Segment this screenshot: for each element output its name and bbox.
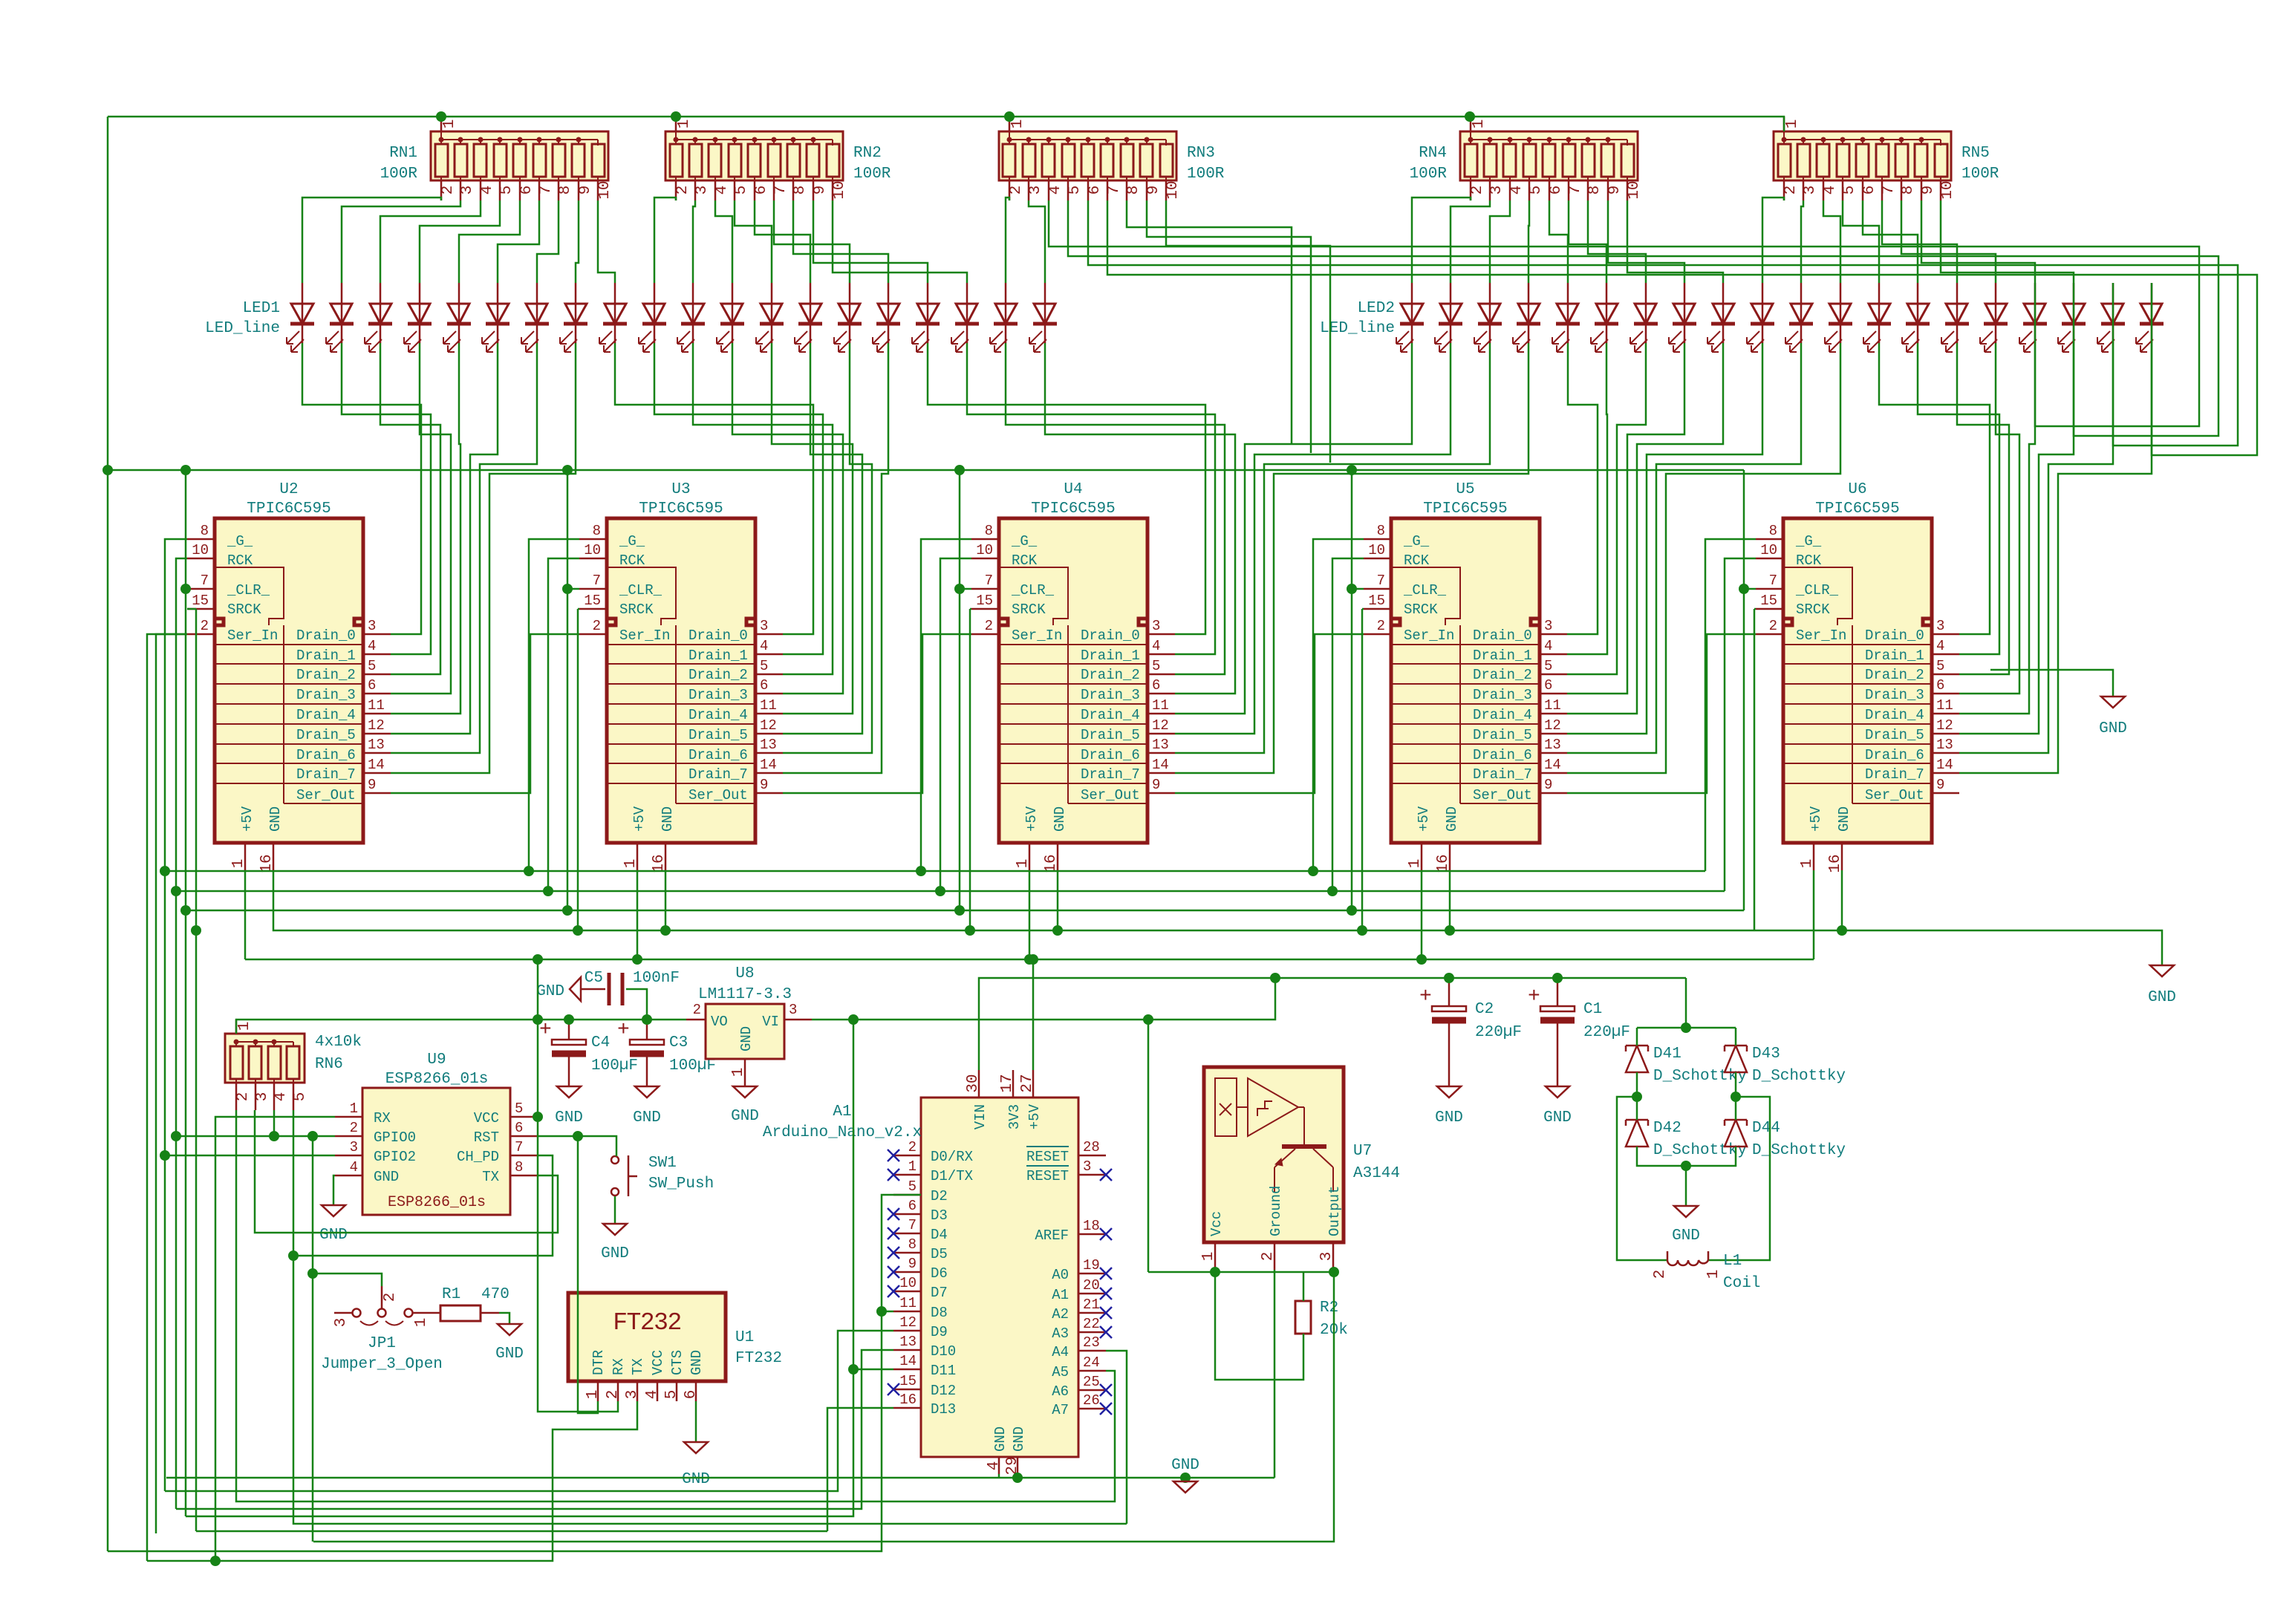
svg-text:LED1: LED1: [243, 300, 280, 317]
svg-text:SW_Push: SW_Push: [648, 1175, 714, 1193]
svg-text:+5V: +5V: [1026, 1103, 1043, 1129]
svg-text:15: 15: [976, 593, 993, 609]
svg-text:6: 6: [1152, 677, 1160, 694]
junction: [1329, 1267, 1339, 1277]
wire D13 left: [196, 1530, 827, 1533]
wire CLR vertical: [959, 470, 961, 910]
svg-text:GND: GND: [1543, 1109, 1572, 1126]
ground left of C5: [570, 977, 581, 1001]
svg-text:10: 10: [976, 542, 993, 558]
svg-text:R2: R2: [1320, 1299, 1338, 1317]
wire CLR bus: [186, 910, 1744, 912]
IC U7 A3144 hall sensor: [1200, 1067, 1400, 1270]
LED LED1 element 18: [951, 283, 979, 352]
svg-text:Drain_6: Drain_6: [296, 747, 356, 763]
wire LED cathode to drain: [1567, 343, 1723, 714]
junction: [191, 925, 201, 936]
wire pin29 drop: [1017, 1474, 1019, 1478]
svg-text:_CLR_: _CLR_: [1795, 582, 1839, 599]
svg-text:TPIC6C595: TPIC6C595: [1031, 500, 1115, 518]
svg-text:SRCK: SRCK: [227, 601, 261, 618]
svg-text:11: 11: [1152, 697, 1169, 714]
svg-text:6: 6: [1548, 186, 1565, 195]
svg-text:Drain_3: Drain_3: [1865, 687, 1924, 703]
svg-text:2: 2: [1260, 1252, 1277, 1262]
svg-text:9: 9: [812, 186, 829, 195]
LED LED1 element 7: [521, 283, 549, 352]
junction: [642, 1014, 652, 1025]
svg-text:2: 2: [593, 618, 601, 634]
junction: [562, 584, 573, 594]
svg-text:+: +: [1419, 985, 1432, 1008]
svg-text:8: 8: [908, 1236, 917, 1253]
svg-text:Drain_1: Drain_1: [1081, 648, 1140, 664]
svg-text:26: 26: [1083, 1392, 1100, 1409]
svg-text:1: 1: [1015, 859, 1032, 869]
svg-text:L1: L1: [1723, 1253, 1742, 1270]
svg-text:U1: U1: [735, 1329, 754, 1346]
svg-text:4: 4: [479, 186, 496, 195]
junction: [533, 1112, 543, 1122]
svg-text:7: 7: [1377, 573, 1385, 589]
wire RN6 pin5 to A4 line: [293, 1110, 1127, 1524]
svg-text:Drain_3: Drain_3: [1081, 687, 1140, 703]
svg-text:13: 13: [899, 1334, 917, 1350]
svg-text:5: 5: [1841, 186, 1858, 195]
svg-text:100µF: 100µF: [591, 1057, 638, 1074]
svg-text:5: 5: [760, 658, 768, 674]
wire RN pin to LED anode: [1588, 200, 1646, 283]
wire JP1 pin2: [313, 1274, 382, 1286]
svg-text:100R: 100R: [853, 166, 891, 183]
wire GPIO0: [176, 1135, 335, 1138]
wire control tap: [548, 558, 579, 891]
wire LED cathode to drain: [1567, 343, 1840, 773]
svg-text:Drain_1: Drain_1: [1473, 648, 1532, 664]
wire LED cathode to drain: [391, 343, 576, 773]
wire CLR vertical: [1743, 470, 1745, 910]
svg-text:2: 2: [693, 1002, 701, 1018]
wire LED cathode to drain: [1175, 343, 1490, 753]
diode D44 D_Schottky: [1725, 1120, 1846, 1159]
junction: [848, 1364, 859, 1374]
wire CH_PD: [293, 1155, 553, 1256]
wire RN pin to LED anode: [342, 200, 460, 283]
svg-text:D0/RX: D0/RX: [931, 1149, 974, 1165]
svg-text:Drain_2: Drain_2: [688, 667, 748, 683]
svg-text:C2: C2: [1475, 1001, 1494, 1018]
svg-text:GPIO2: GPIO2: [374, 1149, 416, 1165]
svg-text:21: 21: [1083, 1297, 1100, 1313]
svg-text:100R: 100R: [1410, 166, 1448, 183]
svg-text:9: 9: [1606, 186, 1624, 195]
wire D2 route: [108, 1195, 921, 1551]
svg-text:D4: D4: [931, 1227, 948, 1243]
junction: [573, 925, 583, 936]
svg-text:2: 2: [1377, 618, 1385, 634]
svg-text:220µF: 220µF: [1583, 1024, 1630, 1041]
svg-text:1: 1: [1799, 859, 1816, 869]
wire RN pin to LED anode: [537, 200, 559, 283]
svg-text:GND: GND: [555, 1109, 583, 1126]
LED LED2 element 5: [1552, 283, 1580, 352]
svg-text:+5V: +5V: [1023, 806, 1040, 832]
svg-text:5: 5: [515, 1100, 523, 1117]
svg-text:U3: U3: [671, 481, 690, 498]
svg-text:7: 7: [1567, 186, 1584, 195]
svg-text:GND: GND: [267, 806, 284, 832]
wire RN pin to LED anode: [1921, 200, 2035, 283]
ground right rail: [2150, 965, 2174, 976]
wire LED cathode to drain: [1567, 343, 1598, 634]
wire GND pin: [1449, 870, 1451, 930]
wire RN3 pin long route to LED anode: [1049, 200, 2199, 426]
svg-text:D44: D44: [1752, 1120, 1780, 1137]
svg-text:GND: GND: [1444, 806, 1460, 832]
wire RN pin to LED anode: [755, 200, 810, 283]
wire LED cathode to drain: [1959, 343, 2074, 734]
svg-text:D_Schottky: D_Schottky: [1752, 1142, 1846, 1159]
junction: [102, 465, 113, 475]
ground under C2: [1437, 1086, 1461, 1098]
svg-text:2: 2: [382, 1293, 399, 1302]
wire LED cathode to drain: [391, 343, 451, 694]
wire RN3 pin mid route: [1147, 200, 1311, 453]
svg-text:R1: R1: [442, 1286, 460, 1303]
wire RN pin to LED anode: [1627, 200, 1723, 283]
svg-text:Ser_In: Ser_In: [1796, 627, 1846, 644]
svg-text:Drain_7: Drain_7: [296, 766, 356, 783]
IC U1 FT232: [568, 1293, 782, 1401]
svg-text:RCK: RCK: [619, 552, 645, 569]
wire RN pin to LED anode: [1941, 200, 2074, 283]
svg-text:Drain_5: Drain_5: [1865, 727, 1924, 743]
junction: [564, 1014, 574, 1025]
svg-text:7: 7: [772, 186, 789, 195]
wire LED cathode to drain: [1567, 343, 1762, 734]
svg-text:1: 1: [230, 859, 247, 869]
svg-text:2: 2: [440, 186, 457, 195]
svg-text:10: 10: [584, 542, 601, 558]
svg-text:22: 22: [1083, 1316, 1100, 1332]
ground under U9: [322, 1205, 345, 1216]
svg-text:1: 1: [236, 1022, 253, 1031]
svg-text:10: 10: [1939, 180, 1956, 199]
svg-text:11: 11: [899, 1295, 917, 1311]
switch SW1 SW_Push: [611, 1155, 714, 1196]
wire SW1 bottom: [614, 1196, 616, 1224]
svg-text:8: 8: [985, 523, 993, 539]
svg-text:Drain_0: Drain_0: [1865, 627, 1924, 644]
junction: [1210, 1267, 1220, 1277]
LED LED2 element 1: [1396, 283, 1424, 352]
wire +5V rail: [245, 959, 1814, 961]
wire top supply bus: [108, 117, 1784, 131]
svg-text:LED2: LED2: [1358, 300, 1395, 317]
svg-text:Drain_1: Drain_1: [296, 648, 356, 664]
svg-text:9: 9: [1920, 186, 1937, 195]
wire 3V3 line: [236, 1020, 686, 1034]
wire U2 CLR tap: [186, 588, 187, 590]
svg-text:A2: A2: [1052, 1306, 1069, 1323]
svg-text:Drain_6: Drain_6: [1473, 747, 1532, 763]
svg-text:7: 7: [538, 186, 555, 195]
svg-text:24: 24: [1083, 1354, 1100, 1371]
svg-text:D5: D5: [931, 1246, 948, 1262]
junction: [1180, 1473, 1191, 1483]
svg-text:LED_line: LED_line: [205, 320, 280, 337]
svg-text:Drain_6: Drain_6: [1081, 747, 1140, 763]
wire D9 route: [165, 1331, 893, 1491]
wire RN3 pin long route to LED anode: [1088, 200, 2238, 446]
svg-text:D9: D9: [931, 1324, 948, 1340]
svg-text:12: 12: [899, 1314, 917, 1331]
svg-text:GND: GND: [633, 1109, 661, 1126]
svg-text:RN5: RN5: [1961, 145, 1990, 162]
svg-text:GND: GND: [2099, 720, 2127, 737]
svg-text:GND: GND: [731, 1108, 759, 1125]
svg-text:29: 29: [1004, 1456, 1021, 1475]
svg-text:ESP8266_01s: ESP8266_01s: [385, 1071, 489, 1088]
wire CLR tap: [1352, 588, 1364, 590]
wire RN pin to LED anode: [774, 200, 850, 283]
svg-text:GND: GND: [1052, 806, 1068, 832]
svg-text:28: 28: [1083, 1139, 1100, 1155]
svg-text:19: 19: [1083, 1257, 1100, 1274]
LED LED2 element 11: [1785, 283, 1813, 352]
svg-text:5: 5: [498, 186, 515, 195]
wire control tap: [1313, 539, 1364, 871]
svg-text:A3144: A3144: [1353, 1165, 1400, 1182]
wire R1 to gnd: [499, 1313, 509, 1324]
svg-text:10: 10: [192, 542, 209, 558]
svg-text:D2: D2: [931, 1188, 948, 1204]
LED LED1 element 4: [404, 283, 432, 352]
svg-text:U2: U2: [279, 481, 298, 498]
svg-text:3: 3: [1544, 618, 1552, 634]
svg-text:D41: D41: [1653, 1046, 1681, 1063]
svg-text:RX: RX: [611, 1358, 627, 1375]
wire JP1 vertical: [312, 1136, 314, 1273]
svg-text:GND: GND: [992, 1426, 1009, 1452]
svg-text:Drain_5: Drain_5: [296, 727, 356, 743]
wire LED cathode to drain: [783, 343, 888, 773]
svg-text:RCK: RCK: [1012, 552, 1038, 569]
svg-text:CH_PD: CH_PD: [457, 1149, 499, 1165]
junction: [954, 584, 965, 594]
LED LED1 element 12: [717, 283, 744, 352]
LED LED2 element 18: [2058, 283, 2086, 352]
junction: [916, 866, 926, 876]
svg-text:3: 3: [789, 1002, 797, 1018]
wire VIN raw line: [979, 978, 1686, 1070]
svg-text:Ser_Out: Ser_Out: [1473, 787, 1532, 803]
svg-text:Ser_Out: Ser_Out: [688, 787, 748, 803]
wire SRCK vertical: [969, 609, 971, 930]
svg-text:RN2: RN2: [853, 145, 882, 162]
wire SRCK vertical: [1754, 609, 1756, 930]
svg-text:470: 470: [481, 1286, 509, 1303]
svg-text:VI: VI: [762, 1014, 779, 1030]
junction: [1416, 954, 1427, 965]
svg-text:11: 11: [1936, 697, 1953, 714]
resistor network RN4 100R: [1410, 117, 1643, 200]
svg-text:A4: A4: [1052, 1344, 1069, 1360]
wire RN pin to LED anode: [420, 200, 500, 283]
svg-text:_CLR_: _CLR_: [619, 582, 662, 599]
svg-text:2: 2: [1469, 186, 1486, 195]
svg-text:TX: TX: [630, 1358, 646, 1375]
junction: [1681, 1023, 1691, 1033]
svg-text:GND: GND: [601, 1245, 629, 1262]
junction: [1327, 886, 1338, 896]
wire +5V pin: [637, 870, 639, 959]
resistor R2 20k: [1295, 1299, 1348, 1339]
wire SRCK tap: [1362, 608, 1364, 610]
wire RN3 pin to LED anode: [1029, 200, 1045, 283]
LED LED2 element 13: [1863, 283, 1891, 352]
wire LED cathode to drain: [1957, 343, 2009, 674]
svg-text:Ser_Out: Ser_Out: [1081, 787, 1140, 803]
LED LED1 element 13: [756, 283, 784, 352]
wire LED cathode to drain: [1959, 343, 2035, 714]
svg-text:GND: GND: [536, 983, 564, 1000]
wire LED cathode to drain: [1959, 343, 2113, 753]
svg-text:TX: TX: [482, 1169, 499, 1185]
ground under C4: [557, 1086, 581, 1098]
wire U2 CLR vertical: [185, 470, 187, 1516]
LED LED1 element 16: [873, 283, 900, 352]
svg-text:6: 6: [753, 186, 770, 195]
svg-text:4: 4: [1822, 186, 1839, 195]
svg-text:3: 3: [1318, 1252, 1335, 1262]
svg-text:5: 5: [292, 1092, 309, 1102]
wire LED cathode to drain: [693, 343, 833, 674]
svg-text:9: 9: [1936, 777, 1944, 793]
svg-text:TPIC6C595: TPIC6C595: [247, 500, 331, 518]
wire control tap: [1725, 558, 1756, 891]
svg-text:1: 1: [908, 1158, 917, 1175]
LED LED2 element 14: [1902, 283, 1930, 352]
wire GND pin: [1057, 870, 1059, 930]
svg-text:A1: A1: [1052, 1287, 1069, 1303]
svg-text:100nF: 100nF: [633, 970, 680, 987]
svg-text:D1/TX: D1/TX: [931, 1168, 974, 1184]
LED LED2 element 3: [1474, 283, 1502, 352]
wire LED cathode to drain: [342, 343, 431, 654]
svg-text:TPIC6C595: TPIC6C595: [1815, 500, 1899, 518]
wire left rail: [107, 117, 109, 1551]
svg-text:3: 3: [459, 186, 476, 195]
junction: [160, 1150, 170, 1161]
svg-text:7: 7: [515, 1139, 523, 1155]
junction: [848, 1014, 859, 1025]
junction: [533, 954, 543, 965]
IC A1 Arduino_Nano_v2.x: [763, 1070, 1112, 1475]
svg-text:RN6: RN6: [315, 1056, 343, 1073]
LED LED2 element 17: [2019, 283, 2047, 352]
junction: [1731, 1092, 1741, 1102]
wire LED cathode to drain: [1959, 343, 2152, 773]
wire RN3 pin long route to LED anode: [1068, 200, 2218, 436]
svg-text:Drain_1: Drain_1: [1865, 648, 1924, 664]
svg-text:GND: GND: [319, 1227, 348, 1244]
LED LED1 element 9: [599, 283, 627, 352]
svg-text:5: 5: [368, 658, 376, 674]
junction: [533, 1014, 543, 1025]
wire LED cathode to drain: [967, 343, 1215, 654]
svg-text:4: 4: [273, 1092, 290, 1102]
wire RN pin to LED anode: [1801, 200, 1803, 283]
wire D41-D42: [1636, 1072, 1638, 1120]
LED LED2 element 12: [1825, 283, 1852, 352]
wire RN3 pin mid route: [1127, 200, 1292, 443]
svg-text:RST: RST: [474, 1129, 499, 1146]
svg-text:D_Schottky: D_Schottky: [1653, 1142, 1747, 1159]
svg-text:SRCK: SRCK: [1796, 601, 1830, 618]
svg-text:4: 4: [644, 1390, 661, 1400]
LED LED1 element 15: [834, 283, 862, 352]
wire +5V pin: [1813, 870, 1815, 959]
capacitor C1 220µF: [1528, 978, 1630, 1086]
svg-text:5: 5: [1067, 186, 1084, 195]
junction: [171, 886, 181, 896]
IC U9 ESP8266_01s: [335, 1051, 538, 1215]
svg-text:A7: A7: [1052, 1402, 1069, 1418]
junction: [1143, 1014, 1153, 1025]
svg-text:_G_: _G_: [227, 533, 253, 550]
svg-text:4: 4: [1047, 186, 1064, 195]
svg-text:10: 10: [831, 180, 848, 199]
svg-text:17: 17: [999, 1074, 1016, 1092]
svg-text:8: 8: [1125, 186, 1142, 195]
wire CLR top bus: [108, 469, 1744, 472]
wire RN pin to LED anode: [459, 200, 520, 283]
wire RCK bus: [176, 890, 1725, 893]
junction: [1347, 584, 1357, 594]
svg-text:3: 3: [1027, 186, 1044, 195]
svg-text:5: 5: [1544, 658, 1552, 674]
svg-text:GND: GND: [1011, 1426, 1027, 1452]
svg-text:_G_: _G_: [1011, 533, 1038, 550]
svg-text:5: 5: [1152, 658, 1160, 674]
junction: [269, 1131, 279, 1141]
svg-text:Ser_Out: Ser_Out: [296, 787, 356, 803]
svg-text:Drain_5: Drain_5: [688, 727, 748, 743]
svg-text:4x10k: 4x10k: [315, 1034, 362, 1051]
svg-text:GND: GND: [374, 1169, 399, 1185]
wire pin4 drop: [998, 1474, 1000, 1478]
wire LED cathode to drain: [1567, 343, 1684, 694]
svg-text:GND: GND: [682, 1471, 710, 1488]
svg-text:GND: GND: [738, 1026, 755, 1051]
svg-text:Drain_4: Drain_4: [296, 707, 356, 723]
IC U2 TPIC6C595: [187, 481, 391, 873]
svg-text:18: 18: [1083, 1218, 1100, 1234]
wire LED cathode to drain: [391, 343, 498, 734]
svg-text:23: 23: [1083, 1334, 1100, 1351]
wire ESP TX to RN6 pin3: [255, 1110, 558, 1233]
wire LED cathode to drain: [1175, 343, 1528, 773]
svg-text:100R: 100R: [1961, 166, 1999, 183]
svg-text:TPIC6C595: TPIC6C595: [639, 500, 723, 518]
wire ESP GND: [333, 1175, 335, 1205]
wire D43 top: [1735, 1028, 1737, 1046]
wire U2 SRCK tap: [187, 608, 196, 610]
wire RN3 pin long route to LED anode: [1107, 200, 2257, 455]
ground under SW1: [603, 1224, 627, 1235]
wire RN pin to LED anode: [1823, 200, 1840, 283]
